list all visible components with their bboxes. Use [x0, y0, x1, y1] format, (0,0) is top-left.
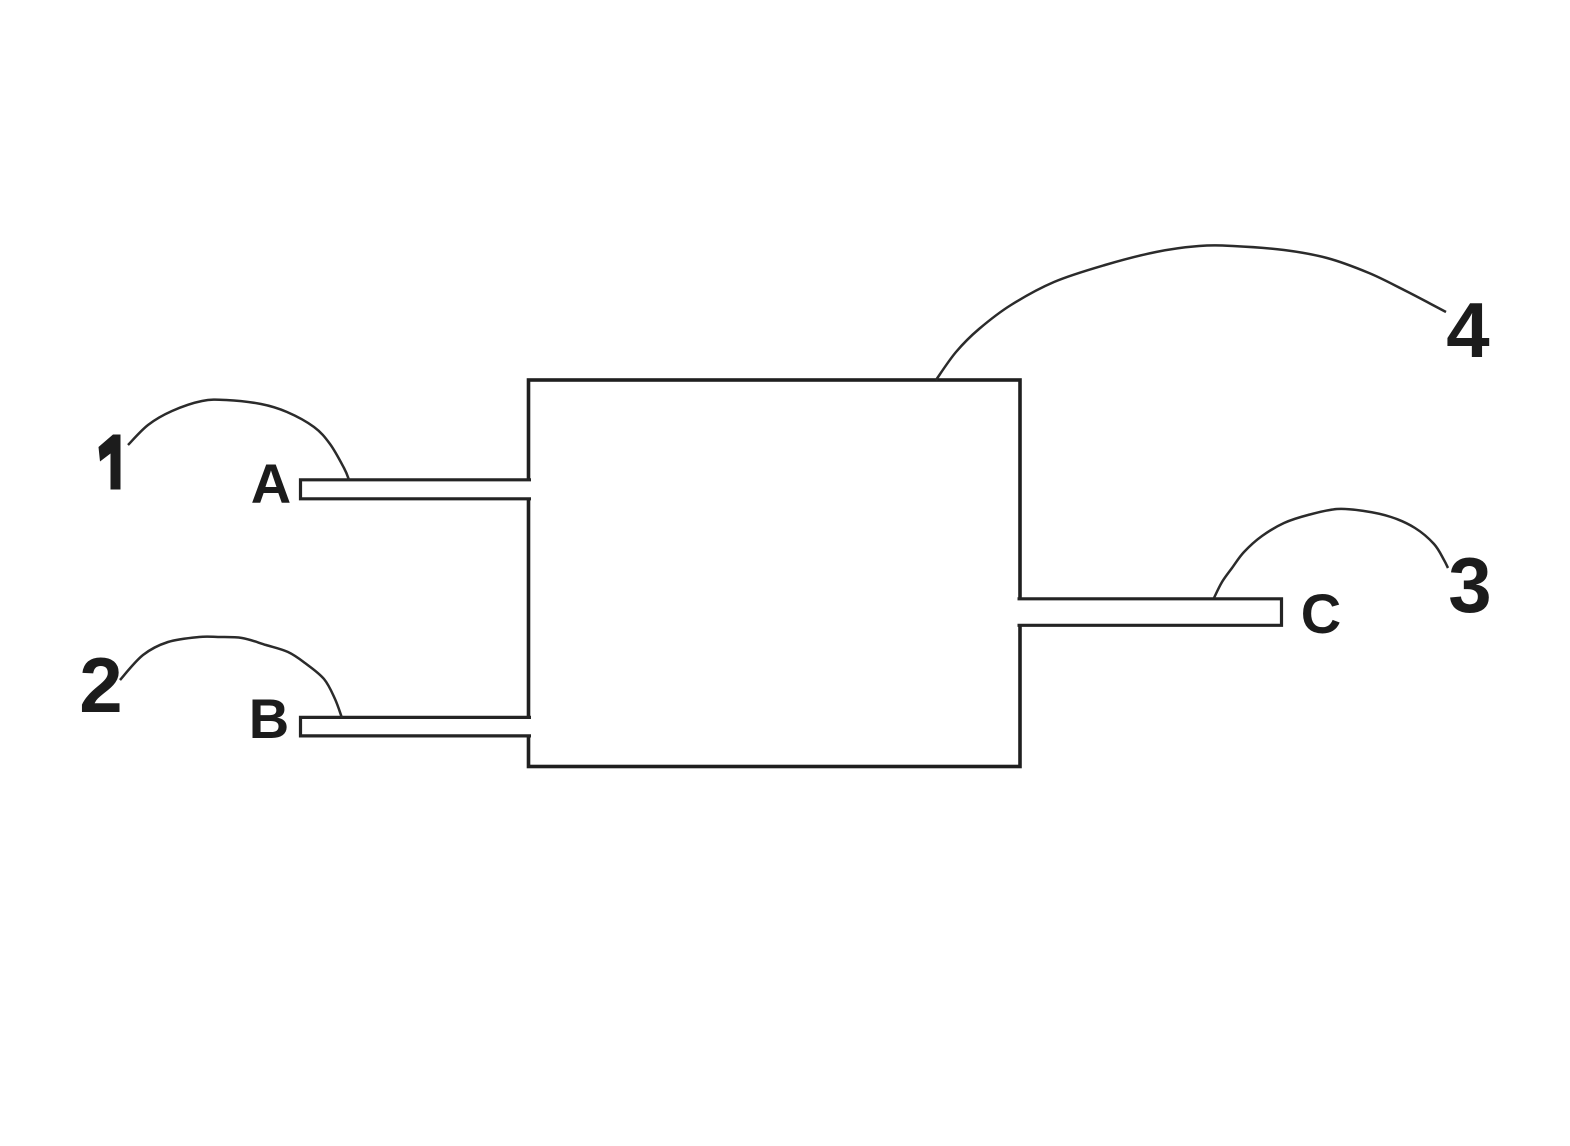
leader line 3: [1214, 509, 1448, 598]
svg-text:A: A: [251, 452, 291, 515]
svg-text:B: B: [249, 687, 289, 750]
label 1: [99, 435, 121, 490]
port A stub (input line): [301, 480, 532, 499]
port B stub (input line): [301, 717, 532, 736]
leader line 4: [936, 245, 1446, 380]
svg-text:4: 4: [1446, 286, 1489, 374]
svg-text:3: 3: [1448, 541, 1491, 629]
svg-text:C: C: [1301, 582, 1341, 645]
port C stub (output line): [1018, 599, 1282, 626]
svg-text:2: 2: [79, 641, 122, 729]
device body rectangle 4: [529, 380, 1021, 767]
leader line 2: [120, 637, 342, 718]
leader line 1: [128, 400, 349, 480]
